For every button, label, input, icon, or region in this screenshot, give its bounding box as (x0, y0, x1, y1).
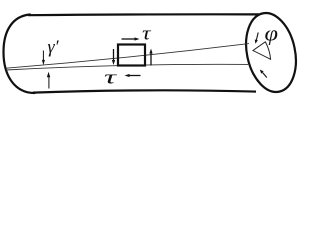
cylinder top edge (28, 13, 259, 16)
twist angle wedge (sector) on end face (253, 42, 271, 60)
svg-text:τ: τ (104, 68, 118, 89)
tau arrow bottom (leftward) (125, 74, 141, 77)
original generator line (straight) (6, 64, 248, 70)
stress element square (118, 45, 145, 66)
svg-text:φ: φ (265, 21, 279, 46)
right end face ellipse (239, 8, 303, 96)
label tau top (142, 24, 152, 45)
svg-text:τ: τ (142, 24, 152, 45)
tau arrow top (rightward) (122, 37, 140, 40)
svg-text:γ′: γ′ (48, 37, 60, 57)
angle phi upper pointer arrow (255, 33, 258, 44)
angle gamma' upper pointer arrow (42, 51, 45, 66)
twisted generator line (helix) (6, 44, 249, 69)
tau arrow left side (downward) (112, 49, 115, 65)
tau arrow right side (upward) (149, 49, 152, 66)
cylinder bottom edge (33, 90, 256, 92)
label tau bottom (104, 68, 118, 89)
cylinder left end cap (4, 15, 35, 94)
label phi (265, 21, 279, 46)
angle phi lower pointer arrow (260, 70, 267, 78)
angle gamma' lower pointer arrow (upward) (47, 72, 50, 89)
label gamma' (48, 37, 60, 57)
